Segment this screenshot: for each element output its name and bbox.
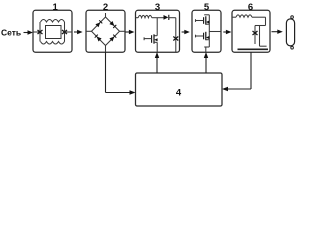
label 4 [176,87,182,98]
diode VD4 bottom-right [109,35,116,42]
transistor VT3 gate lead [196,35,204,38]
label 6 [248,2,253,13]
wire diode to corner [169,17,176,19]
label 1 [53,2,59,13]
block 4 box (control circuit) [136,73,223,106]
inductor L3 [236,15,252,17]
wire arrow block1 to block2 [74,30,83,34]
diode VD5 boost [164,15,169,20]
transistor VT1 channel bar [153,34,155,43]
wire block2 down to block4 [106,52,136,95]
wire bridge diamond [92,17,120,46]
block 1 box (EMI filter) [33,10,72,52]
transistor VT1 source arrow [154,38,157,41]
block 6 box (output resonant circuit) [232,10,270,52]
wire capacitor branch [254,26,256,45]
svg-text:6: 6 [248,2,253,13]
transistor VT3 channel bar [205,32,207,40]
wire output L-corner [260,26,267,47]
capacitor C4 (X mark) [253,31,258,35]
label 5 [204,2,210,13]
wire block4 up to block3 [155,52,159,73]
block 2 box (bridge rectifier) [86,10,125,52]
core rectangle of choke [46,26,62,39]
wire bridge right stub [120,30,126,32]
wire arrow block5 to block6 [223,30,231,34]
transistor VT2 gate lead [196,19,204,22]
diode VD1 top-left [95,20,102,27]
diode VD2 top-right [109,21,116,28]
wire bridge left stub [86,30,92,32]
transistor VT2 source arrow [206,21,209,24]
wire half-bridge output stub [209,31,221,33]
inductor L1a top winding [41,20,65,23]
wire bridge top stub [105,13,107,17]
wire arrow block3 to block5 [182,30,190,34]
wire bottom bus bar [238,48,269,50]
svg-text:1: 1 [53,2,59,13]
transistor VT3 source arrow [206,36,209,39]
wire arrow block6 to lamp [272,30,283,34]
svg-text:5: 5 [204,2,210,13]
label 3 [155,2,160,13]
wire mains input arrow into block 1 [24,30,34,34]
wire block4 up to block5 [204,52,208,73]
wire block1 left branch [39,22,41,42]
svg-text:3: 3 [155,2,160,13]
wire rail bottom tick [204,47,209,52]
transistor VT1 gate bar [151,35,153,43]
wire block1 right branch [64,22,66,42]
svg-text:Сеть: Сеть [1,27,21,37]
transistor VT1 source wire [154,42,157,52]
diode VD3 bottom-left [95,35,102,42]
label 2 [103,2,108,13]
inductor L2 [138,15,152,17]
transistor VT1 gate lead [144,37,152,40]
capacitor C2 (X mark) [62,30,67,34]
inductor L1b bottom winding [41,42,65,45]
wire block6 down to block4 [222,52,251,91]
svg-text:2: 2 [103,2,108,13]
transistor VT2 source tick [206,23,210,25]
wire block3 top-left [136,17,139,19]
transistor VT2 channel bar [205,16,207,24]
capacitor C3 (X mark) [173,37,178,41]
wire bridge bottom stub [105,46,107,53]
wire arrow block2 to block3 [125,30,134,34]
wire coil to right corner [252,17,266,25]
transistor VT1 drain wire [154,18,157,36]
wire rail top tick [204,14,209,16]
wire capacitor top tick [255,25,266,27]
block 3 box (PFC boost converter) [136,10,180,52]
transistor VT3 gate bar [203,33,205,40]
capacitor C1 (X mark) [38,30,43,34]
label Сеть (mains) [1,27,21,37]
block 5 box (half-bridge inverter) [192,10,221,52]
lamp EL1 (fluorescent lamp) [286,16,294,49]
wire block1 input stub [33,31,40,33]
svg-text:4: 4 [176,87,182,98]
wire half-bridge rail [208,15,210,47]
transistor VT3 source tick [206,39,210,41]
wire block1 output stub [65,31,73,33]
wire capacitor branch down [175,18,177,52]
transistor VT2 gate bar [203,17,205,24]
wire block6 top-left [232,16,236,18]
wire coil to diode [152,17,164,19]
